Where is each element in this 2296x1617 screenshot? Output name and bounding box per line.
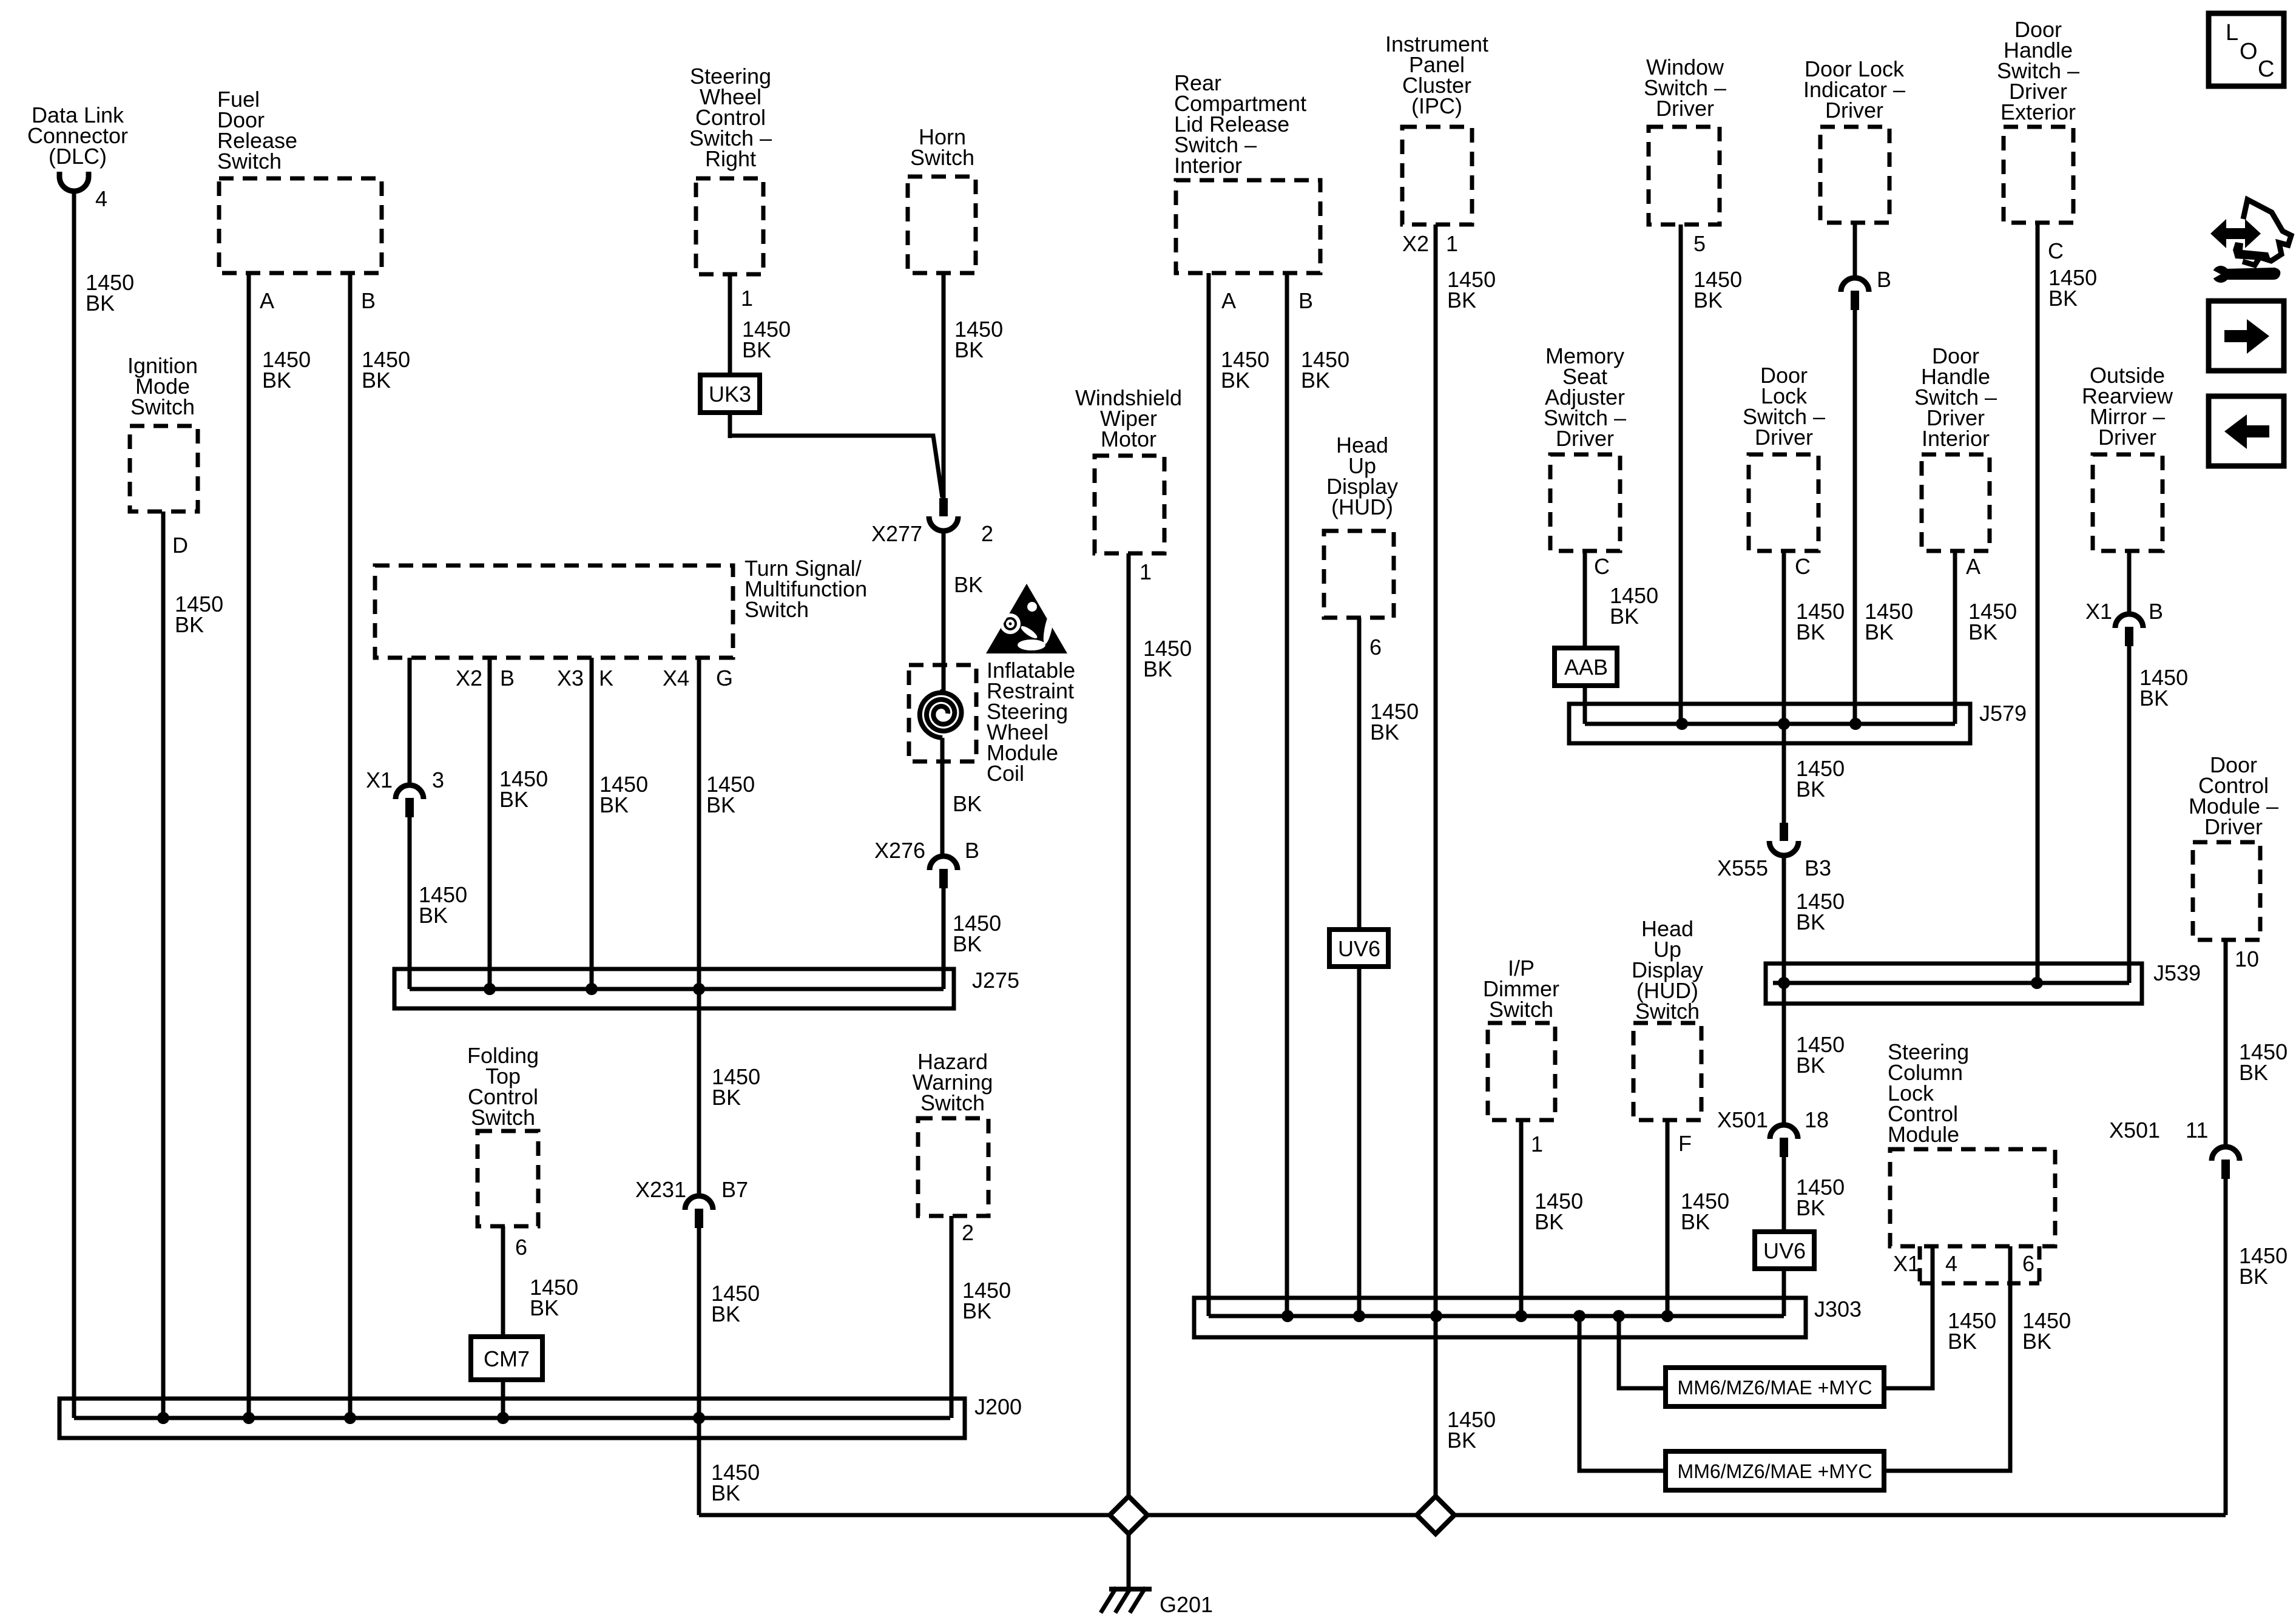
svg-text:6: 6 [1369, 635, 1382, 660]
svg-text:A: A [1966, 554, 1980, 579]
svg-text:BK: BK [1535, 1209, 1564, 1234]
svg-text:UK3: UK3 [709, 382, 751, 407]
svg-text:L: L [2226, 20, 2238, 46]
svg-text:1: 1 [1531, 1132, 1543, 1156]
svg-text:BK: BK [1447, 288, 1476, 312]
svg-text:UV6: UV6 [1763, 1238, 1806, 1263]
svg-text:Switch: Switch [910, 145, 974, 170]
svg-text:BK: BK [1143, 657, 1172, 681]
svg-text:BK: BK [86, 291, 115, 316]
svg-text:AAB: AAB [1564, 655, 1608, 680]
svg-text:UV6: UV6 [1338, 936, 1380, 961]
svg-text:BK: BK [1968, 619, 1997, 644]
svg-text:4: 4 [95, 186, 107, 211]
svg-text:B3: B3 [1805, 856, 1831, 880]
svg-text:BK: BK [712, 1085, 741, 1110]
svg-text:BK: BK [2139, 686, 2169, 711]
svg-text:Driver: Driver [1556, 426, 1614, 451]
svg-text:B: B [1877, 267, 1891, 292]
svg-text:BK: BK [954, 572, 983, 597]
svg-text:X501: X501 [1717, 1107, 1768, 1132]
svg-text:Module: Module [1888, 1122, 1959, 1147]
svg-text:4: 4 [1945, 1251, 1957, 1276]
svg-text:BK: BK [953, 791, 982, 816]
svg-text:BK: BK [1221, 368, 1250, 393]
svg-text:B: B [2149, 599, 2163, 624]
svg-text:C: C [2258, 56, 2274, 82]
svg-text:BK: BK [1796, 1053, 1825, 1078]
svg-text:X501: X501 [2109, 1118, 2160, 1143]
svg-text:BK: BK [530, 1295, 559, 1320]
svg-text:A: A [260, 288, 274, 313]
svg-text:BK: BK [2048, 286, 2078, 311]
svg-text:B7: B7 [721, 1177, 748, 1202]
svg-text:BK: BK [1865, 619, 1894, 644]
svg-text:B: B [965, 838, 979, 863]
svg-text:BK: BK [711, 1301, 740, 1326]
svg-text:BK: BK [2239, 1264, 2268, 1289]
svg-text:BK: BK [262, 368, 291, 393]
svg-text:J275: J275 [972, 968, 1019, 993]
svg-text:BK: BK [499, 787, 528, 812]
svg-text:BK: BK [419, 903, 448, 928]
svg-text:MM6/MZ6/MAE +MYC: MM6/MZ6/MAE +MYC [1678, 1460, 1872, 1482]
svg-text:Switch: Switch [745, 597, 809, 622]
svg-text:BK: BK [2239, 1060, 2268, 1085]
svg-text:B: B [500, 666, 515, 690]
svg-text:BK: BK [175, 612, 204, 637]
svg-text:Motor: Motor [1101, 427, 1156, 451]
svg-text:BK: BK [2022, 1329, 2051, 1354]
svg-text:BK: BK [711, 1480, 740, 1505]
svg-text:BK: BK [362, 368, 391, 393]
svg-text:BK: BK [706, 792, 735, 817]
svg-text:C: C [1594, 554, 1610, 579]
svg-text:2: 2 [981, 521, 993, 546]
svg-text:C: C [2048, 238, 2064, 263]
svg-text:18: 18 [1805, 1107, 1829, 1132]
svg-text:G201: G201 [1160, 1592, 1213, 1617]
svg-text:X2: X2 [456, 666, 482, 690]
svg-text:F: F [1678, 1131, 1692, 1156]
svg-text:B: B [361, 288, 376, 313]
svg-text:1: 1 [1140, 559, 1152, 584]
svg-text:Switch: Switch [217, 149, 282, 174]
svg-text:X4: X4 [663, 666, 689, 690]
svg-text:J200: J200 [974, 1394, 1022, 1419]
svg-text:(DLC): (DLC) [49, 144, 107, 169]
svg-text:C: C [1795, 554, 1811, 579]
svg-text:Right: Right [705, 146, 756, 171]
svg-text:CM7: CM7 [484, 1346, 530, 1371]
svg-text:6: 6 [2022, 1251, 2034, 1276]
svg-text:X555: X555 [1717, 856, 1768, 880]
svg-text:B: B [1298, 288, 1313, 313]
svg-text:1: 1 [1446, 231, 1458, 256]
svg-text:G: G [716, 666, 733, 690]
svg-text:J579: J579 [1979, 701, 2027, 726]
svg-text:BK: BK [1447, 1428, 1476, 1453]
svg-text:1: 1 [741, 286, 753, 311]
svg-text:2: 2 [962, 1220, 974, 1245]
svg-text:J539: J539 [2153, 960, 2201, 985]
svg-text:Switch: Switch [1635, 999, 1700, 1024]
svg-text:Exterior: Exterior [2001, 100, 2076, 124]
svg-text:X2: X2 [1402, 231, 1429, 256]
svg-text:Interior: Interior [1174, 153, 1242, 178]
svg-text:D: D [172, 533, 188, 558]
svg-text:3: 3 [432, 768, 444, 792]
svg-text:X276: X276 [874, 838, 925, 863]
svg-text:X1: X1 [366, 768, 393, 792]
svg-text:(IPC): (IPC) [1411, 93, 1462, 118]
svg-text:Driver: Driver [1755, 425, 1813, 450]
svg-text:Switch: Switch [471, 1105, 535, 1130]
svg-text:Driver: Driver [2098, 425, 2156, 450]
svg-text:Switch: Switch [130, 394, 195, 419]
svg-text:BK: BK [1370, 720, 1399, 744]
svg-text:BK: BK [1796, 777, 1825, 802]
svg-text:Switch: Switch [920, 1090, 985, 1115]
svg-text:Driver: Driver [1825, 98, 1883, 123]
svg-text:BK: BK [1796, 619, 1825, 644]
svg-text:(HUD): (HUD) [1331, 495, 1393, 519]
svg-text:K: K [599, 666, 613, 690]
svg-text:X1: X1 [1893, 1251, 1920, 1276]
svg-text:BK: BK [962, 1298, 991, 1323]
svg-text:11: 11 [2186, 1118, 2208, 1143]
svg-text:Driver: Driver [2204, 814, 2263, 839]
svg-text:BK: BK [1610, 604, 1639, 629]
svg-text:BK: BK [599, 792, 629, 817]
svg-text:Driver: Driver [1656, 96, 1714, 121]
svg-text:X231: X231 [635, 1177, 686, 1202]
svg-text:BK: BK [1948, 1329, 1977, 1354]
svg-text:10: 10 [2235, 947, 2259, 971]
svg-text:A: A [1221, 288, 1236, 313]
svg-text:X3: X3 [557, 666, 584, 690]
svg-text:BK: BK [1693, 288, 1723, 312]
svg-text:BK: BK [1796, 1195, 1825, 1220]
svg-text:O: O [2240, 39, 2258, 64]
svg-text:X1: X1 [2085, 599, 2112, 624]
svg-text:6: 6 [515, 1235, 527, 1260]
svg-text:Coil: Coil [987, 761, 1024, 786]
svg-text:BK: BK [953, 931, 982, 956]
svg-text:BK: BK [1301, 368, 1330, 393]
svg-text:BK: BK [954, 337, 984, 362]
svg-text:J303: J303 [1814, 1297, 1862, 1322]
svg-text:Switch: Switch [1489, 997, 1553, 1022]
svg-text:BK: BK [1681, 1209, 1710, 1234]
svg-text:BK: BK [742, 337, 771, 362]
svg-text:X277: X277 [871, 521, 922, 546]
svg-text:5: 5 [1693, 231, 1706, 256]
svg-text:Interior: Interior [1922, 426, 1990, 451]
svg-text:BK: BK [1796, 910, 1825, 934]
svg-text:MM6/MZ6/MAE +MYC: MM6/MZ6/MAE +MYC [1678, 1377, 1872, 1399]
